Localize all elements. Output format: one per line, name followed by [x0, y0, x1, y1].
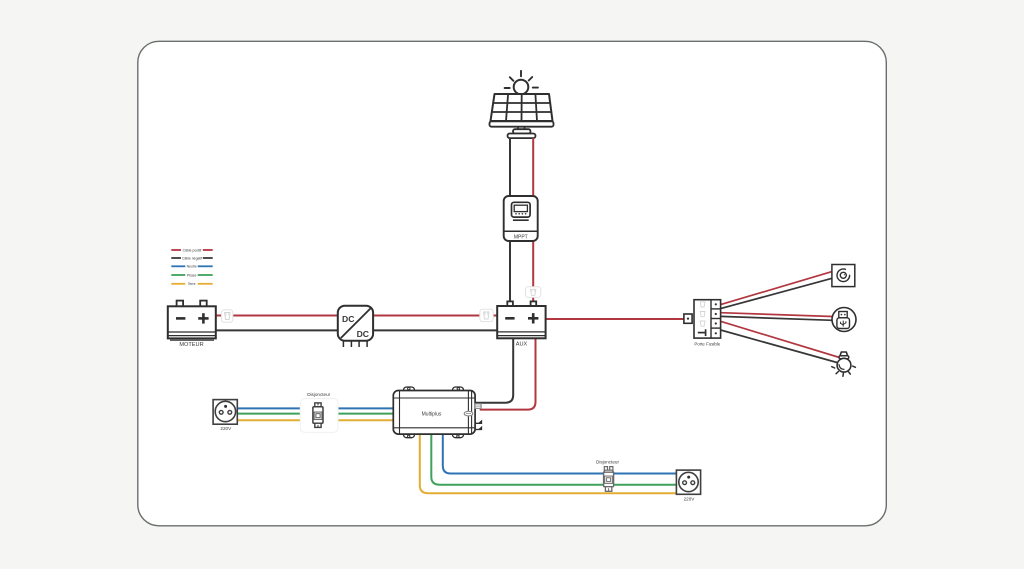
wire black to USB	[721, 316, 833, 320]
wire yellow multiplus to socket1	[237, 419, 393, 421]
legend: cable negatif	[171, 256, 212, 260]
porte fusible	[684, 300, 721, 347]
wire red MOTEUR to DC-DC	[216, 315, 338, 317]
wire black DC-DC to AUX	[373, 329, 497, 331]
light bulb	[832, 352, 856, 376]
MPPT charge controller	[504, 196, 538, 241]
svg-text:220V: 220V	[220, 426, 232, 431]
svg-text:Disjoncteur: Disjoncteur	[307, 392, 330, 397]
svg-text:MPPT: MPPT	[514, 235, 528, 241]
USB socket	[832, 308, 856, 332]
wire red to bulb	[721, 321, 840, 357]
wire red AUX to porte fusible	[546, 318, 684, 320]
legend: terre	[171, 282, 212, 286]
svg-text:DC: DC	[357, 329, 369, 339]
socket 220V #1	[213, 400, 237, 431]
DC-DC converter	[338, 306, 373, 347]
fuse F1 after MOTEUR battery	[222, 310, 233, 323]
wire black MOTEUR to DC-DC	[216, 329, 338, 331]
svg-text:Phase: Phase	[187, 273, 197, 277]
socket 220V #2	[676, 470, 700, 502]
fuse F2 before AUX battery	[480, 309, 493, 321]
svg-text:Disjoncteur: Disjoncteur	[596, 460, 619, 465]
battery AUX	[497, 301, 545, 347]
wire green multiplus to socket1	[237, 413, 393, 415]
svg-text:Terre: Terre	[188, 282, 196, 286]
wire green multiplus to socket2	[431, 435, 676, 485]
dimmer switch	[832, 265, 855, 287]
svg-text:DC: DC	[342, 314, 354, 324]
fuse F-PV on red wire above AUX battery	[526, 287, 541, 298]
sun	[505, 71, 538, 94]
svg-text:AUX: AUX	[516, 342, 528, 348]
wire black to bulb	[721, 330, 837, 363]
legend: neutre	[171, 265, 212, 269]
legend: phase	[171, 273, 212, 277]
wire PV negative black vertical	[509, 138, 511, 301]
wire red DC-DC to AUX	[373, 315, 497, 317]
wire red AUX to Multiplus	[480, 338, 536, 409]
svg-text:Câble positif: Câble positif	[183, 248, 202, 252]
wire blue multiplus to socket2	[443, 435, 677, 474]
solar panel	[490, 94, 554, 138]
svg-text:MOTEUR: MOTEUR	[179, 342, 203, 348]
wire blue multiplus to socket1	[237, 407, 393, 409]
svg-text:Multiplus: Multiplus	[422, 411, 442, 417]
wire PV positive red vertical	[532, 138, 534, 301]
svg-text:Neutre: Neutre	[187, 265, 197, 269]
wire black to dimmer	[721, 278, 832, 308]
wire red to USB	[721, 313, 833, 317]
svg-text:Porte Fusible: Porte Fusible	[694, 342, 720, 347]
wire black AUX to Multiplus	[475, 338, 513, 402]
wire yellow multiplus to socket2	[420, 435, 677, 493]
legend: cable positif	[171, 248, 212, 252]
battery MOTEUR	[168, 301, 216, 349]
svg-text:Câble négatif: Câble négatif	[182, 256, 202, 260]
disjoncteur 2	[596, 460, 619, 492]
wire red to dimmer	[721, 272, 832, 305]
svg-text:220V: 220V	[684, 497, 696, 502]
disjoncteur 1	[300, 392, 338, 433]
multiplus inverter	[393, 387, 481, 438]
